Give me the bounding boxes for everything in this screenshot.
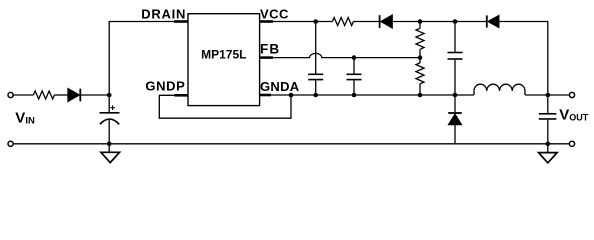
resistor R2 (332, 18, 353, 26)
svg-text:DRAIN: DRAIN (141, 7, 186, 22)
capacitor C2 vertical wire with crossover (315, 22, 317, 96)
wire L1 to output node (525, 94, 548, 96)
node output (546, 93, 551, 98)
diode D1 (68, 89, 109, 102)
ground right (539, 144, 558, 163)
capacitor C3 plates (347, 74, 362, 79)
inductor L1 (474, 84, 525, 95)
wire node up and top rail to DRAIN (109, 22, 174, 96)
output terminal VOUT- (569, 141, 574, 146)
node C2 bottom (313, 93, 318, 98)
node D4 C4 (453, 93, 458, 98)
node ground right (546, 142, 551, 147)
wire bottom rail (13, 143, 569, 145)
ground left (101, 144, 120, 163)
capacitor C4 plates (448, 53, 463, 60)
wire D3 to output node (499, 22, 547, 96)
svg-text:VCC: VCC (260, 7, 289, 22)
diode D2 (380, 15, 393, 28)
node VCC cap2 top (453, 19, 458, 24)
node FB cap3 (352, 55, 357, 60)
svg-text:GNDA: GNDA (260, 79, 300, 94)
resistor R4 divider lower (416, 58, 424, 95)
node input bulk (107, 93, 112, 98)
diode D4 freewheel (448, 95, 462, 144)
capacitor C5 output wire (547, 95, 549, 144)
svg-text:VOUT: VOUT (559, 106, 589, 123)
svg-text:FB: FB (260, 42, 280, 57)
output terminal VOUT+ (569, 92, 574, 97)
capacitor C4 wire (454, 22, 456, 96)
wire R2 to D2 (353, 21, 379, 23)
svg-text:VIN: VIN (15, 110, 35, 127)
node VCC cap top (313, 19, 318, 24)
node divider top (418, 19, 423, 24)
node divider bottom (418, 93, 423, 98)
svg-text:GNDP: GNDP (145, 79, 185, 94)
wire input to R1 (13, 94, 33, 96)
wire D2 to D3 (392, 21, 486, 23)
resistor R3 divider upper (416, 22, 424, 58)
resistor R1 (33, 91, 54, 99)
pin GNDA stub (260, 94, 271, 97)
node GNDP return (289, 93, 294, 98)
wire FB with hop over C2 line (273, 53, 420, 57)
capacitor C3 wire (353, 58, 355, 95)
input terminal VIN- (8, 141, 13, 146)
wire VCC to R2 (273, 21, 332, 23)
pin FB stub (260, 56, 273, 59)
node FB divider (418, 55, 423, 60)
plus mark C1 (110, 105, 115, 110)
pin GNDP stub (175, 94, 189, 97)
pin DRAIN stub (174, 20, 188, 23)
op-amp U1 MP175L box (188, 14, 260, 106)
wire GNDA rail (271, 94, 474, 96)
wire GNDP loop (159, 95, 291, 118)
node ground left (107, 142, 112, 147)
wire output node to terminal (548, 94, 570, 96)
capacitor C5 plates (539, 114, 557, 119)
svg-text:MP175L: MP175L (201, 47, 246, 61)
pin VCC stub (260, 20, 273, 23)
capacitor C1 input bulk polarized (100, 95, 120, 144)
diode D3 (487, 15, 499, 27)
wire R1 to D1 (54, 94, 68, 96)
node C3 bottom (352, 93, 357, 98)
input terminal VIN+ (8, 92, 13, 97)
capacitor C2 plates (308, 74, 323, 79)
